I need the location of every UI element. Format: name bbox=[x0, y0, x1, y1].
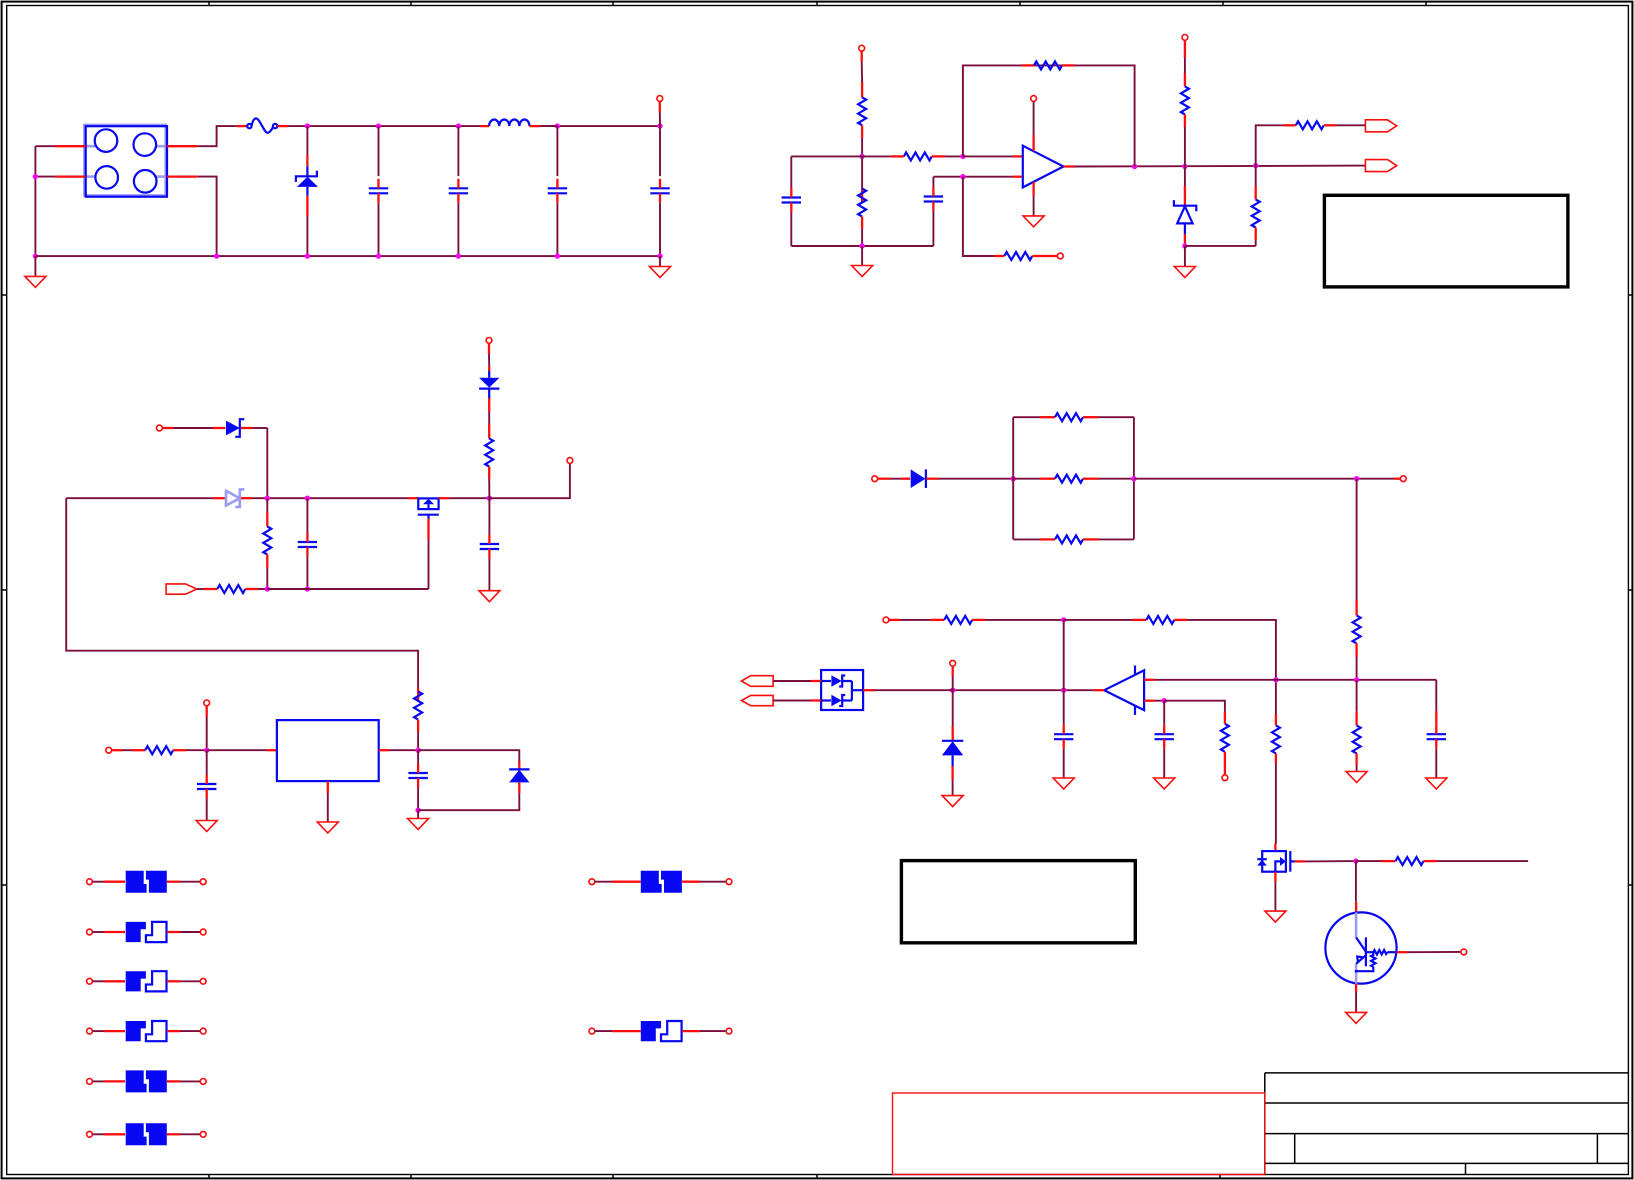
wire noninverting line bbox=[933, 176, 1022, 178]
junction bottom bus x307 bbox=[305, 253, 310, 258]
port OUT2 bbox=[1365, 160, 1396, 172]
resistor R gate pulldown bbox=[263, 498, 271, 589]
jumper JP6 bbox=[87, 1123, 207, 1145]
feedback wire bbox=[963, 65, 1135, 166]
junction bottom bus x216 bbox=[214, 253, 219, 258]
wire Q2 gate to junction bbox=[1305, 860, 1356, 862]
wire Q1 drain to junction bbox=[449, 497, 489, 499]
wire load resistor to zener junction bbox=[1185, 245, 1256, 247]
ground zener bbox=[1174, 246, 1195, 278]
diode D down bbox=[479, 366, 499, 424]
title block lines bbox=[1265, 1073, 1629, 1175]
wire inverting input to opamp bbox=[963, 155, 1023, 157]
resistor R divider bottom bbox=[1346, 680, 1367, 783]
connector J1 pin 3 bbox=[167, 145, 197, 147]
connector J1 bbox=[86, 126, 167, 197]
zener diode D1 bbox=[213, 419, 267, 437]
transistor base terminal bbox=[1397, 949, 1467, 955]
MOSFET Q2 bbox=[1257, 844, 1305, 883]
comparator output wire bbox=[953, 689, 1104, 691]
transistor Q3 bbox=[1325, 912, 1396, 983]
diode D2 clamp bbox=[418, 750, 529, 810]
junction bottom bus x458 bbox=[456, 253, 461, 258]
bottom rail opamp input bbox=[791, 245, 933, 247]
junction sense branch bbox=[1354, 476, 1359, 481]
wire connector pin4 down to bus bbox=[197, 177, 216, 257]
junction reg output gnd bbox=[415, 808, 420, 813]
wire divider to cap left bbox=[791, 155, 862, 157]
terminal right gate bbox=[567, 458, 573, 464]
junction connector left bbox=[33, 174, 38, 179]
regulator ground pin bbox=[317, 781, 338, 833]
resistor R feedback bbox=[1022, 61, 1074, 69]
junction output branch bbox=[1253, 163, 1258, 168]
junction bottom bus x557 bbox=[555, 253, 560, 258]
jumper JP1 bbox=[87, 871, 207, 893]
power terminal comp bbox=[950, 660, 956, 690]
fuse F1 bbox=[237, 118, 288, 132]
wire comp in2 corner down bbox=[1187, 620, 1276, 714]
wire parallel left rail bbox=[1012, 417, 1014, 539]
capacitor C1 bbox=[369, 126, 388, 256]
op-amp U1 bbox=[1023, 146, 1064, 188]
junction minus input bbox=[1162, 698, 1167, 703]
ground reg output bbox=[408, 810, 429, 829]
ground right bus bbox=[650, 256, 671, 277]
terminal offset bbox=[1057, 253, 1063, 259]
port OUT1 bbox=[1365, 120, 1396, 132]
resistor R reg input bbox=[132, 746, 207, 754]
wire pwm line to gate stem bbox=[267, 588, 428, 590]
power terminal pullup bbox=[1182, 35, 1188, 74]
resistor R series inverting bbox=[862, 152, 963, 160]
resistor R lower divider bbox=[858, 156, 866, 246]
resistor R offset bbox=[994, 252, 1057, 260]
resistor R LED bbox=[485, 424, 493, 498]
bottom edge zone ticks bbox=[209, 1175, 1220, 1180]
jumper JP4 bbox=[87, 1021, 207, 1041]
wire parallel right rail bbox=[1133, 417, 1135, 539]
regulator U2 bbox=[277, 720, 379, 781]
jumper JP5 bbox=[87, 1070, 207, 1092]
wire comp line down to mosfet bbox=[1275, 763, 1277, 844]
resistor R pullup bbox=[1181, 73, 1189, 167]
resistor R comp in1 bbox=[931, 616, 1064, 624]
resistor R threshold bbox=[1164, 701, 1229, 781]
ground reg input cap bbox=[196, 821, 217, 832]
resistor R upper divider bbox=[858, 82, 866, 156]
power terminal top-left opamp bbox=[859, 45, 865, 82]
connector J1 echo bbox=[84, 125, 167, 195]
junction top bus x307 bbox=[305, 123, 310, 128]
TVS diode D5 bbox=[296, 126, 318, 256]
junction parallel right bbox=[1131, 476, 1136, 481]
terminal reg input bbox=[106, 747, 132, 753]
terminal sense out bbox=[1394, 476, 1406, 482]
junction main line x267 bbox=[265, 496, 270, 501]
ground Q3 emitter bbox=[1346, 984, 1367, 1024]
capacitor C gate bbox=[298, 498, 317, 589]
ground left input bbox=[25, 256, 46, 287]
capacitor C input left bbox=[782, 156, 801, 246]
junction inverting input bbox=[960, 154, 965, 159]
power terminal LED column bbox=[486, 338, 492, 367]
terminal sense input bbox=[872, 476, 901, 482]
note box red bbox=[893, 1093, 1265, 1175]
wire main line to right terminal bbox=[489, 463, 570, 498]
junction parallel left bbox=[1011, 476, 1016, 481]
ground Q2 source bbox=[1265, 882, 1286, 922]
ground opamp divider bbox=[852, 246, 873, 277]
jumper JP7 right bbox=[589, 871, 732, 893]
resistor R dropper bbox=[414, 688, 422, 751]
junction bottom bus x660 bbox=[657, 253, 662, 258]
regulator output wire bbox=[379, 749, 418, 751]
junction plus line x1356 bbox=[1354, 677, 1359, 682]
junction bottom bus x377 bbox=[376, 253, 381, 258]
capacitor C plus far right bbox=[1426, 680, 1447, 789]
power terminal reg bbox=[204, 700, 210, 750]
capacitor C2 bbox=[449, 126, 468, 256]
wire feedback loop long bbox=[66, 498, 418, 687]
jumper JP8 right bbox=[589, 1021, 732, 1041]
resistor R base bbox=[1356, 857, 1528, 865]
resistor R comp in2 bbox=[1064, 616, 1187, 624]
connector J1 pin 4 bbox=[167, 175, 197, 177]
junction pwm line x307 bbox=[305, 586, 310, 591]
junction top bus x377 bbox=[376, 123, 381, 128]
resistor R load bbox=[1252, 166, 1260, 246]
wire branch up to out resistor bbox=[1256, 125, 1283, 165]
connector J1 pin 1 bbox=[35, 145, 85, 147]
junction comp feedback top bbox=[1061, 617, 1066, 622]
capacitor C comp out bbox=[1053, 690, 1074, 789]
junction noninverting input bbox=[960, 174, 965, 179]
zener diode Z2 bbox=[1174, 167, 1196, 246]
port PWM input bbox=[166, 584, 197, 594]
resistor R sense divider top bbox=[1353, 479, 1361, 680]
resistor R shunt top bbox=[1013, 413, 1134, 421]
resistor R shunt bottom bbox=[1013, 535, 1134, 543]
top edge zone ticks bbox=[209, 1, 1426, 6]
MOSFET Q1 bbox=[409, 498, 450, 589]
resistor R shunt mid bbox=[1013, 475, 1134, 483]
junction bus left bbox=[33, 253, 38, 258]
junction gate2 bbox=[1353, 858, 1358, 863]
junction main line x307 bbox=[305, 496, 310, 501]
junction output feedback bbox=[1132, 164, 1137, 169]
op-amp output wire bbox=[1064, 164, 1366, 167]
left edge zone ticks bbox=[1, 295, 7, 885]
op-amp ground pin bbox=[1023, 182, 1044, 227]
wire D1 down to main line bbox=[266, 428, 268, 498]
wire noninverting down to offset resistor bbox=[963, 177, 994, 256]
wire sense line right bbox=[1134, 478, 1394, 480]
junction divider mid bbox=[859, 154, 864, 159]
capacitor C3 bbox=[548, 126, 567, 256]
resistor R PWM bbox=[197, 585, 267, 593]
wire connector pin3 to fuse bbox=[197, 126, 237, 146]
comparator plus input wire bbox=[1144, 679, 1436, 681]
junction main line x489 bbox=[487, 496, 492, 501]
junction zener bottom bbox=[1182, 243, 1187, 248]
jumper JP3 bbox=[87, 971, 207, 991]
junction top bus x557 bbox=[555, 123, 560, 128]
wire comp feedback vertical bbox=[1063, 620, 1065, 690]
wire connector left down to bottom bus bbox=[34, 146, 36, 256]
capacitor C noninverting bbox=[924, 177, 943, 246]
resistor R out1 bbox=[1283, 121, 1365, 129]
dual diode output pin bbox=[863, 689, 953, 691]
terminal comp input bbox=[883, 617, 930, 623]
junction top bus x660 bbox=[657, 123, 662, 128]
capacitor C minus bbox=[1154, 701, 1175, 789]
ground mid cap bbox=[479, 591, 500, 602]
junction comp out pullup bbox=[950, 688, 955, 693]
terminal gate input bbox=[157, 425, 214, 431]
wire junction down to transistor bbox=[1355, 861, 1357, 912]
junction vert x1276 bbox=[1273, 677, 1278, 682]
comparator U3 bbox=[1104, 666, 1144, 715]
resistor R gate2 (in vertical run) bbox=[1272, 714, 1280, 763]
inductor L1 bbox=[480, 120, 557, 127]
wire reg input to regulator bbox=[207, 749, 277, 751]
junction bottom rail bbox=[859, 243, 864, 248]
zener diode Z1 bbox=[213, 489, 252, 507]
junction output zener column bbox=[1182, 164, 1187, 169]
port ISO1 bbox=[741, 676, 821, 687]
capacitor C mid bbox=[480, 498, 499, 591]
wire fuse to top bus bbox=[288, 125, 660, 127]
diode D4 clamp bbox=[942, 690, 963, 806]
port ISO2 bbox=[741, 695, 821, 705]
note box black top-right bbox=[1324, 195, 1568, 287]
connector J1 pin 2 bbox=[35, 175, 85, 177]
jumper JP2 bbox=[87, 922, 207, 942]
wire main gate line bbox=[66, 497, 408, 499]
junction comp out feedback bbox=[1061, 688, 1066, 693]
capacitor C4 bbox=[650, 126, 669, 256]
op-amp power pin terminal bbox=[1031, 96, 1037, 151]
right edge zone ticks bbox=[1628, 295, 1633, 885]
junction reg output bbox=[415, 748, 420, 753]
power terminal VIN bbox=[657, 96, 663, 127]
note box black bottom-middle bbox=[901, 861, 1135, 943]
capacitor C reg output bbox=[408, 750, 427, 810]
comparator minus input wire bbox=[1144, 700, 1164, 702]
junction top bus x458 bbox=[456, 123, 461, 128]
diode D3 bbox=[901, 469, 1013, 488]
junction reg input bbox=[204, 748, 209, 753]
bottom bus wire bbox=[35, 255, 660, 257]
dual diode U4 bbox=[821, 670, 863, 710]
capacitor C reg input bbox=[197, 750, 216, 820]
junction pwm line x267 bbox=[265, 586, 270, 591]
